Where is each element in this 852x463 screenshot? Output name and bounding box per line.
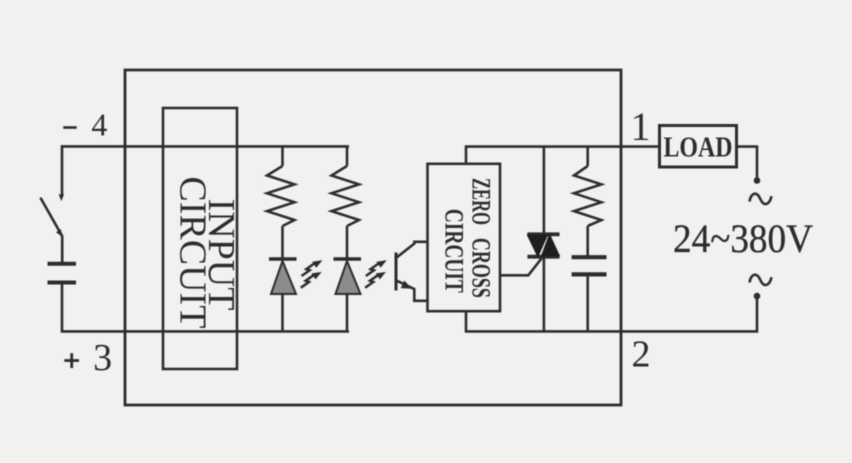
svg-text:2: 2 [632,333,651,375]
svg-text:CIRCUIT: CIRCUIT [440,209,469,293]
svg-text:24~380V: 24~380V [673,216,813,261]
svg-text:4: 4 [91,107,107,143]
svg-text:LOAD: LOAD [664,132,733,164]
svg-text:3: 3 [93,337,112,379]
svg-text:1: 1 [631,104,651,149]
svg-text:CROSS: CROSS [466,238,495,298]
svg-text:CIRCUIT: CIRCUIT [171,176,213,328]
svg-text:ZERO: ZERO [466,178,495,225]
